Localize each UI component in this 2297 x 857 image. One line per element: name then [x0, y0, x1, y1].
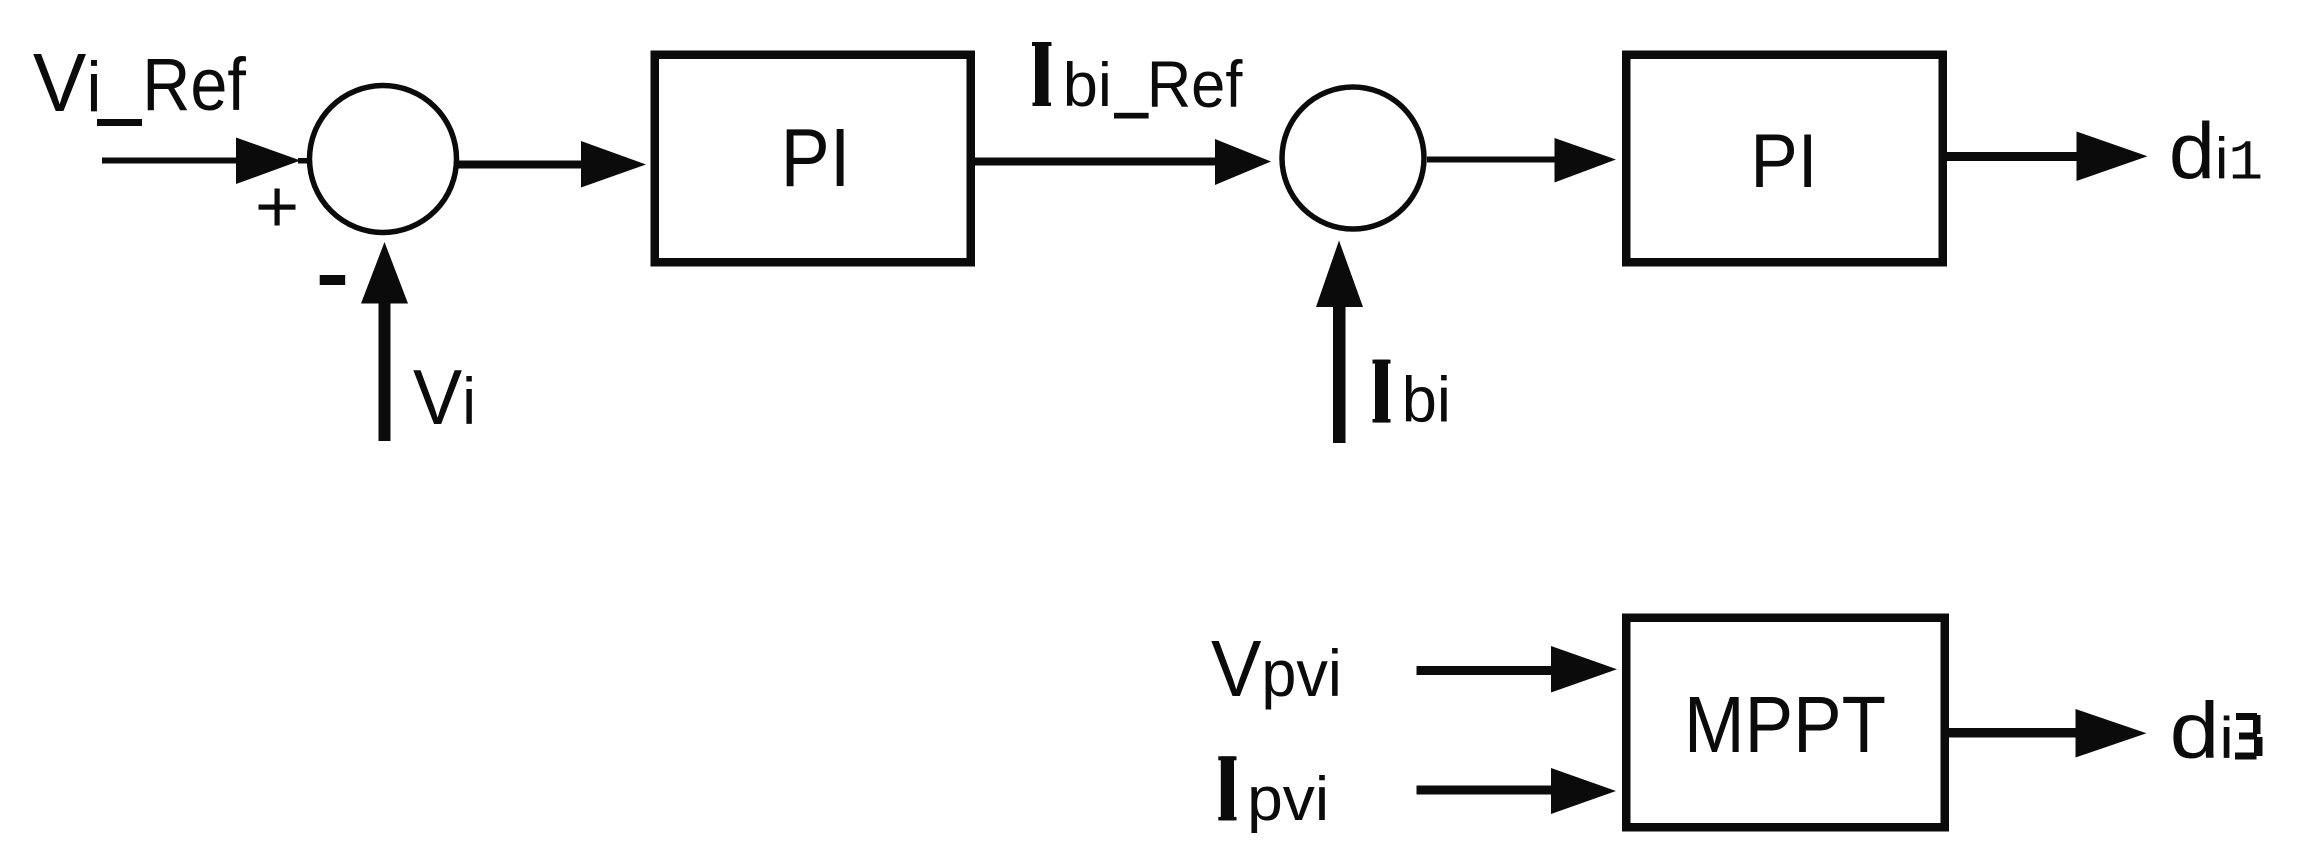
node minus sign at summing junction S1	[320, 275, 346, 285]
wire PI1 to S2 line	[975, 158, 1215, 166]
svg-text:bi: bi	[1402, 363, 1451, 436]
block PI1 label	[781, 111, 851, 204]
block PI1 box	[655, 55, 971, 263]
node Vi label	[413, 354, 476, 441]
wire S1 to PI1 arrowhead	[581, 141, 646, 188]
svg-text:PI: PI	[1750, 118, 1817, 204]
wire Vi feedback vertical line	[379, 303, 391, 441]
svg-text:Vi: Vi	[33, 37, 102, 129]
node Ipvi label	[1218, 756, 1236, 820]
svg-text:PI: PI	[781, 111, 851, 204]
wire Ipvi input line	[1417, 786, 1552, 795]
svg-text:Ref: Ref	[142, 43, 246, 126]
svg-text:Ref: Ref	[1147, 48, 1243, 121]
wire MPPT output line	[1949, 728, 2076, 738]
node Vpvi label	[1211, 625, 1342, 713]
block PI2 label	[1750, 118, 1817, 204]
wire Vi_Ref input line	[102, 158, 236, 164]
block PI2 box	[1626, 55, 1943, 263]
summing junction S1	[310, 86, 457, 233]
svg-text:Vi: Vi	[413, 354, 476, 441]
wire Vpvi input arrowhead	[1551, 646, 1617, 693]
wire MPPT output arrowhead	[2076, 709, 2147, 758]
svg-text:Vpvi: Vpvi	[1211, 625, 1342, 713]
block MPPT label	[1684, 681, 1886, 770]
wire Vpvi input line	[1417, 666, 1552, 675]
svg-text:pvi: pvi	[1247, 765, 1329, 834]
node di1 label	[2169, 107, 2263, 196]
wire S1 to PI1 line	[458, 161, 581, 169]
node Ibi_Ref label	[1032, 42, 1052, 106]
svg-text:MPPT: MPPT	[1684, 681, 1886, 770]
node Vi_Ref label	[33, 37, 102, 129]
wire PI1 to S2 arrowhead	[1215, 139, 1271, 185]
wire nub between arrowhead and S1	[298, 158, 307, 164]
wire Vi_Ref input arrowhead	[236, 138, 301, 185]
wire PI2 output arrowhead	[2077, 132, 2148, 182]
wire S2 to PI2 line	[1427, 157, 1555, 163]
wire Ibi feedback vertical line	[1333, 306, 1346, 443]
wire PI2 output line	[1947, 152, 2077, 161]
wire Ibi feedback arrowhead	[1316, 241, 1363, 308]
block MPPT box	[1626, 618, 1945, 828]
node di3 label	[2170, 686, 2234, 776]
svg-text:bi: bi	[1063, 51, 1112, 120]
node plus sign at summing junction S1	[259, 189, 296, 226]
wire S2 to PI2 arrowhead	[1555, 138, 1617, 183]
wire Vi feedback arrowhead	[361, 242, 408, 304]
summing junction S2	[1282, 87, 1424, 229]
node Ibi label	[1373, 360, 1391, 423]
wire Ipvi input arrowhead	[1551, 768, 1616, 814]
